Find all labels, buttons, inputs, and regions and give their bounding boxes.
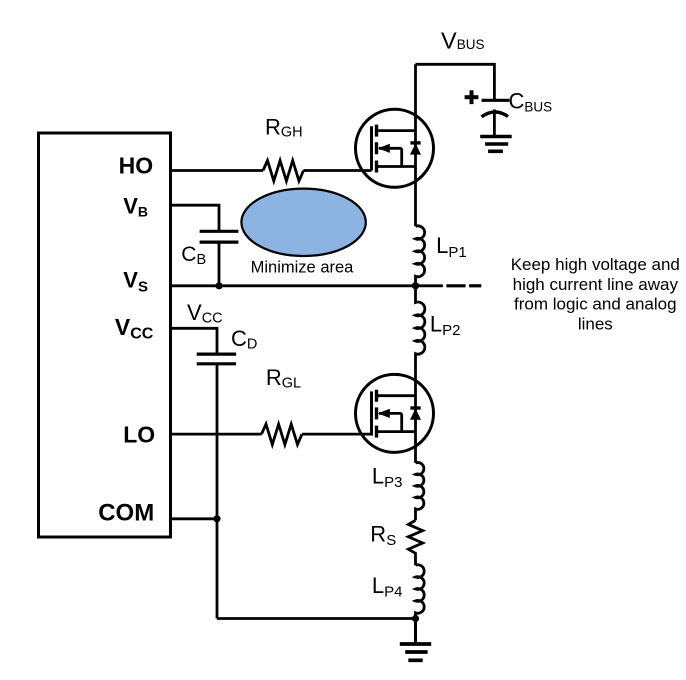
IC box (gate driver) (39, 133, 171, 537)
inductor LP3 (416, 462, 424, 520)
annotation keep-away note (511, 255, 680, 333)
node ground junction (412, 615, 419, 622)
inductor LP2 (416, 286, 425, 354)
resistor RGH (263, 161, 303, 182)
resistor RS (408, 520, 422, 565)
ground at bottom (400, 619, 431, 661)
wire VCC stub (171, 328, 218, 354)
dashed continuation of VS line (446, 284, 481, 287)
wire LP2 to Q2 drain (414, 354, 417, 463)
capacitor CD (197, 354, 236, 618)
svg-text:from logic and analog: from logic and analog (514, 295, 677, 314)
inductor LP4 (416, 565, 425, 619)
capacitor CB (200, 231, 239, 285)
resistor RGL (262, 424, 302, 445)
ground under CBUS (480, 137, 512, 152)
wire main high-voltage vertical (414, 64, 417, 226)
wire VS rail (171, 284, 443, 287)
svg-text:COM: COM (98, 500, 154, 527)
minimize-area ellipse (241, 189, 365, 256)
wire COM (171, 517, 218, 520)
svg-text:lines: lines (578, 314, 613, 333)
wire HO from pin to RGH (171, 169, 264, 172)
node VS junction at CB (215, 282, 222, 289)
wire RGH to Q1 gate (304, 169, 372, 172)
transistor Q1 (high-side MOSFET) (356, 109, 434, 187)
plus sign of CBUS (465, 90, 479, 104)
capacitor CBUS (polarized) (482, 100, 510, 136)
svg-text:Keep high voltage and: Keep high voltage and (511, 255, 680, 274)
node VS junction at phase (412, 282, 419, 289)
node COM junction (213, 515, 220, 522)
wire LO from pin to RGL (171, 433, 262, 436)
transistor Q2 (low-side MOSFET) (356, 374, 434, 452)
inductor LP1 (416, 226, 425, 286)
svg-text:LO: LO (123, 421, 155, 447)
wire RGL to Q2 gate (302, 433, 372, 436)
wire VBUS top rail (416, 64, 495, 100)
svg-text:high current line away: high current line away (513, 275, 679, 294)
wire VB to bootstrap cap (171, 205, 220, 231)
svg-text:Minimize area: Minimize area (251, 259, 355, 277)
svg-text:HO: HO (119, 153, 154, 179)
wire bottom return rail (217, 617, 416, 620)
